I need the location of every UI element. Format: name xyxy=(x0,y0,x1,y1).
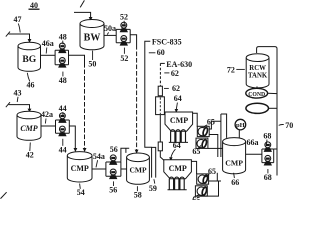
label 65 first xyxy=(207,118,215,127)
wire line 70 with RCW top run xyxy=(257,47,277,176)
leader 52 bottom xyxy=(123,48,125,54)
label 46a xyxy=(42,39,54,48)
leader 46a xyxy=(45,48,48,54)
svg-text:TANK: TANK xyxy=(248,72,268,79)
leader 62 upper xyxy=(164,72,169,74)
svg-text:CMP: CMP xyxy=(71,164,89,173)
wire machine1 out xyxy=(193,113,198,127)
label 68 top xyxy=(263,131,271,140)
svg-text:72: 72 xyxy=(227,65,235,74)
leader 66 xyxy=(233,173,236,178)
gauge pond ellipse xyxy=(246,103,269,113)
leader 59 xyxy=(153,179,156,183)
label 66a xyxy=(247,138,259,147)
wire COND to line70 xyxy=(268,92,277,94)
wire BW to valves 52 xyxy=(104,34,116,36)
svg-text:BW: BW xyxy=(84,32,101,43)
svg-text:68: 68 xyxy=(264,173,272,182)
coils machine2 xyxy=(169,177,184,190)
svg-text:EA-630: EA-630 xyxy=(166,60,192,69)
leader 58 xyxy=(136,186,138,191)
label 56 bottom xyxy=(109,186,117,195)
arrow into tank54 left xyxy=(74,148,78,152)
label 68 bottom xyxy=(264,173,272,182)
svg-text:64: 64 xyxy=(173,141,181,150)
wire break tick 43 xyxy=(6,102,10,107)
leader 42a xyxy=(44,119,47,124)
wire pond to line70 xyxy=(269,107,278,109)
leader 54a xyxy=(96,160,98,167)
coils base machine2 xyxy=(168,189,187,191)
label 44 top xyxy=(59,104,67,113)
leader 68 top xyxy=(265,140,268,145)
svg-text:60: 60 xyxy=(157,48,165,57)
tank CMP 54 xyxy=(67,152,92,182)
svg-text:66a: 66a xyxy=(247,138,259,147)
tank CMP 66 xyxy=(223,138,246,174)
wire feed line 47 into BG xyxy=(9,34,30,39)
svg-text:52: 52 xyxy=(120,13,128,22)
svg-text:54a: 54a xyxy=(93,152,105,161)
label 52 top xyxy=(120,13,128,22)
machine CMP 64 lower xyxy=(164,160,192,179)
leader 65 fourth xyxy=(193,194,199,197)
tank RCW xyxy=(246,54,269,88)
meter pH xyxy=(235,119,246,130)
label 65 third xyxy=(208,167,216,176)
svg-text:43: 43 xyxy=(14,89,22,98)
svg-text:50a: 50a xyxy=(104,24,116,33)
label 58 xyxy=(134,191,142,200)
svg-text:52: 52 xyxy=(120,54,128,63)
leader 65 first xyxy=(204,125,207,128)
svg-text:65: 65 xyxy=(207,118,215,127)
svg-text:42a: 42a xyxy=(41,110,53,119)
arrow into BW xyxy=(89,17,93,21)
leader 42 xyxy=(29,143,32,152)
wire jog to tank66 rim xyxy=(221,114,227,138)
svg-text:48: 48 xyxy=(59,32,67,41)
wire RCW to COND xyxy=(256,86,258,88)
label 50a xyxy=(104,24,116,33)
valve 52 top xyxy=(120,22,127,32)
valve pair 48 bracket xyxy=(55,50,68,64)
leader 48 top xyxy=(62,41,64,45)
bracket EA-630 xyxy=(160,62,164,64)
wire tank66 to valves 68 xyxy=(246,153,262,155)
wire pH stem xyxy=(238,130,240,138)
leader 43 xyxy=(16,97,19,102)
label 50 xyxy=(88,60,96,69)
leader 48 bottom xyxy=(62,72,64,77)
pump 65-1b xyxy=(197,139,207,148)
label 62 lower xyxy=(172,84,180,93)
leader 52 top xyxy=(123,21,125,24)
label 54a xyxy=(93,152,105,161)
wire break tick 47 xyxy=(6,32,10,37)
svg-text:CMP: CMP xyxy=(169,164,187,173)
leader 62 lower xyxy=(164,87,169,89)
svg-text:47: 47 xyxy=(14,15,22,24)
wire BG to valves 48 xyxy=(41,54,56,56)
valve pair 56 bracket xyxy=(106,162,121,176)
wire CMP42 to valves 44 xyxy=(41,125,56,127)
label 60 xyxy=(157,48,165,57)
wire riser right of pumps xyxy=(220,114,222,157)
label 64 machine2 xyxy=(173,141,181,150)
wire valve52 out down into tank58 xyxy=(130,35,136,45)
pump 65-2b xyxy=(197,187,207,196)
svg-text:40: 40 xyxy=(30,1,38,10)
wire valve44 out down into tank54 xyxy=(69,126,75,148)
leader 54 xyxy=(79,184,82,189)
coils machine1 xyxy=(171,130,186,143)
svg-text:50: 50 xyxy=(88,60,96,69)
label 64 machine1 xyxy=(174,94,182,103)
svg-text:42: 42 xyxy=(26,151,34,160)
svg-text:CMP: CMP xyxy=(20,124,37,133)
leader 56 bottom xyxy=(113,181,115,186)
valve pair 68 bracket xyxy=(262,149,274,163)
pipe 59 u-bend xyxy=(152,147,156,177)
leader 50 xyxy=(92,51,94,60)
valve 48 top xyxy=(59,43,66,53)
valve 52 bottom xyxy=(120,36,127,46)
svg-text:48: 48 xyxy=(59,76,67,85)
wire valve68 out to line70 xyxy=(274,148,277,150)
valve pair 52 bracket xyxy=(116,29,130,42)
pump 65-1a xyxy=(198,127,208,136)
label 65 second xyxy=(192,147,200,156)
gauge COND xyxy=(246,88,268,98)
wire machine2 out xyxy=(191,161,196,174)
svg-text:66: 66 xyxy=(231,178,239,187)
svg-text:58: 58 xyxy=(134,191,142,200)
arrow into tank 54 xyxy=(83,148,87,152)
valve 48 bottom xyxy=(59,58,66,68)
svg-text:56: 56 xyxy=(109,186,117,195)
pipe steps upper xyxy=(197,126,209,136)
valve 44 top xyxy=(59,113,66,123)
label 44 bottom xyxy=(59,145,67,154)
label 54 xyxy=(77,188,85,197)
svg-text:COND: COND xyxy=(248,91,265,98)
arrow into CMP42 xyxy=(28,109,32,113)
leader 44 top xyxy=(62,112,64,115)
svg-text:70: 70 xyxy=(285,121,293,130)
svg-text:CMP: CMP xyxy=(225,158,243,167)
label EA-630 xyxy=(166,60,192,69)
label 48 top xyxy=(59,32,67,41)
label 65 fourth xyxy=(192,196,200,205)
title underline xyxy=(29,8,40,10)
svg-text:65: 65 xyxy=(192,147,200,156)
label 42a xyxy=(41,110,53,119)
svg-text:CMP: CMP xyxy=(170,116,188,125)
tank BW xyxy=(80,20,104,50)
wire feed line 43 into CMP42 xyxy=(9,105,30,109)
filter machine2 feed xyxy=(158,142,162,151)
tank CMP 42 xyxy=(17,111,41,140)
leader 47 xyxy=(18,24,20,33)
svg-text:62: 62 xyxy=(172,84,180,93)
label 48 bottom xyxy=(59,76,67,85)
pump group 65 upper xyxy=(196,121,223,157)
bracket FSC-835 xyxy=(145,41,152,147)
wire EA dashed down xyxy=(159,63,161,85)
wire feed into BW xyxy=(74,12,91,17)
label 56 top xyxy=(110,145,118,154)
svg-text:59: 59 xyxy=(149,184,157,193)
svg-text:46a: 46a xyxy=(42,39,54,48)
label 72 xyxy=(227,65,235,74)
filter 62 xyxy=(158,86,162,96)
valve 56 bottom xyxy=(110,169,117,179)
svg-text:BG: BG xyxy=(22,54,36,65)
wire into machine2 xyxy=(160,151,164,160)
label 42 xyxy=(26,151,34,160)
valve 68 top xyxy=(264,142,271,152)
svg-text:44: 44 xyxy=(59,145,67,154)
wire valve56 out to tank58 xyxy=(121,168,127,170)
svg-text:FSC-835: FSC-835 xyxy=(152,37,182,46)
svg-text:CMP: CMP xyxy=(129,165,146,174)
wire tank54 to valves 56 xyxy=(92,168,106,170)
label 47 xyxy=(14,15,22,24)
wire manifold down xyxy=(159,115,161,142)
label 62 upper xyxy=(171,69,179,78)
label FSC-835 xyxy=(152,37,182,46)
leader arrow 64 into machine1 xyxy=(176,103,177,110)
leader 60 xyxy=(149,52,156,54)
pump 65-2a xyxy=(198,175,208,184)
title 40 xyxy=(30,1,38,10)
label 70 xyxy=(285,121,293,130)
wire break tick BW feed xyxy=(80,0,84,7)
tank CMP 58 xyxy=(127,153,150,184)
coils base machine1 xyxy=(169,141,188,143)
valve pair 44 bracket xyxy=(56,120,70,133)
valve 68 bottom xyxy=(264,155,271,165)
svg-text:RCW: RCW xyxy=(249,65,266,72)
svg-text:pH: pH xyxy=(236,122,246,129)
svg-text:56: 56 xyxy=(110,145,118,154)
wire break bottom-left corner xyxy=(1,192,7,198)
svg-text:62: 62 xyxy=(171,69,179,78)
pump group 65 lower xyxy=(195,173,221,196)
label 43 xyxy=(14,89,22,98)
svg-text:54: 54 xyxy=(77,188,85,197)
label 59 xyxy=(149,184,157,193)
leader 72 xyxy=(236,68,245,70)
leader 50a xyxy=(107,32,108,34)
wire 56 upper jog xyxy=(121,148,129,162)
leader 68 bottom xyxy=(267,169,269,173)
leader 70 xyxy=(279,124,284,127)
svg-text:44: 44 xyxy=(59,104,67,113)
arrow into tank58 xyxy=(135,150,139,154)
label 46 xyxy=(27,81,35,90)
leader 64 machine2 xyxy=(171,149,176,157)
svg-text:68: 68 xyxy=(263,131,271,140)
feed box 64 xyxy=(156,97,165,115)
wire valve48 out to down pipe xyxy=(69,55,85,63)
leader 65 third xyxy=(206,175,210,178)
tank BG xyxy=(18,42,41,71)
svg-text:46: 46 xyxy=(27,81,35,90)
valve 56 top xyxy=(110,155,117,165)
leader 46 xyxy=(27,73,30,82)
leader 65 second xyxy=(198,145,201,148)
valve 44 bottom xyxy=(59,126,66,136)
label 52 bottom xyxy=(120,54,128,63)
label 66 xyxy=(231,178,239,187)
machine CMP 64 upper xyxy=(165,112,193,131)
svg-text:64: 64 xyxy=(174,94,182,103)
arrow into BG xyxy=(28,39,32,43)
leader 44 bottom xyxy=(62,139,64,146)
